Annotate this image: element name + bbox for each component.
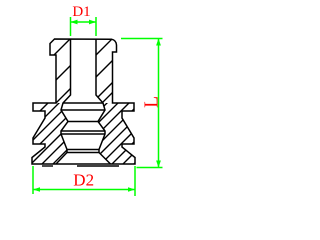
svg-text:L: L xyxy=(141,96,162,108)
dimension L: dimension line xyxy=(158,39,160,168)
dimension D1: dimension line xyxy=(71,21,97,23)
dimension D2: extension lines xyxy=(33,166,135,196)
dimension D1: right arrow xyxy=(89,20,96,25)
bottom secondary edge segments xyxy=(42,165,53,167)
dimension D1: extension lines xyxy=(71,17,97,36)
svg-text:D2: D2 xyxy=(73,171,94,190)
dimension L: bottom arrow xyxy=(156,161,161,168)
hatch lines (section hatching, 45 deg) xyxy=(0,0,298,200)
inner cavity profile (vase shaped hole) xyxy=(56,39,111,164)
cavity waist line y121.5 xyxy=(68,121,98,123)
dimension D2: dimension line xyxy=(33,189,135,191)
cavity ring line y131 xyxy=(61,130,105,132)
cavity ring line y134 xyxy=(61,133,105,135)
dimension D2: left arrow xyxy=(33,187,40,191)
svg-text:D1: D1 xyxy=(72,4,90,20)
dimension D1: left arrow xyxy=(71,20,78,25)
dimension D2: right arrow xyxy=(128,187,135,191)
cavity ring line y110 xyxy=(61,109,105,111)
cavity ring line y149 xyxy=(67,149,99,151)
dimension L: top arrow xyxy=(156,39,161,46)
cavity ring line y103 xyxy=(63,102,103,104)
cavity ring line y152.5 xyxy=(67,152,99,154)
dimension L: extension lines xyxy=(121,39,163,168)
part outline (outer profile with lip, flange and barbs) xyxy=(32,39,135,164)
